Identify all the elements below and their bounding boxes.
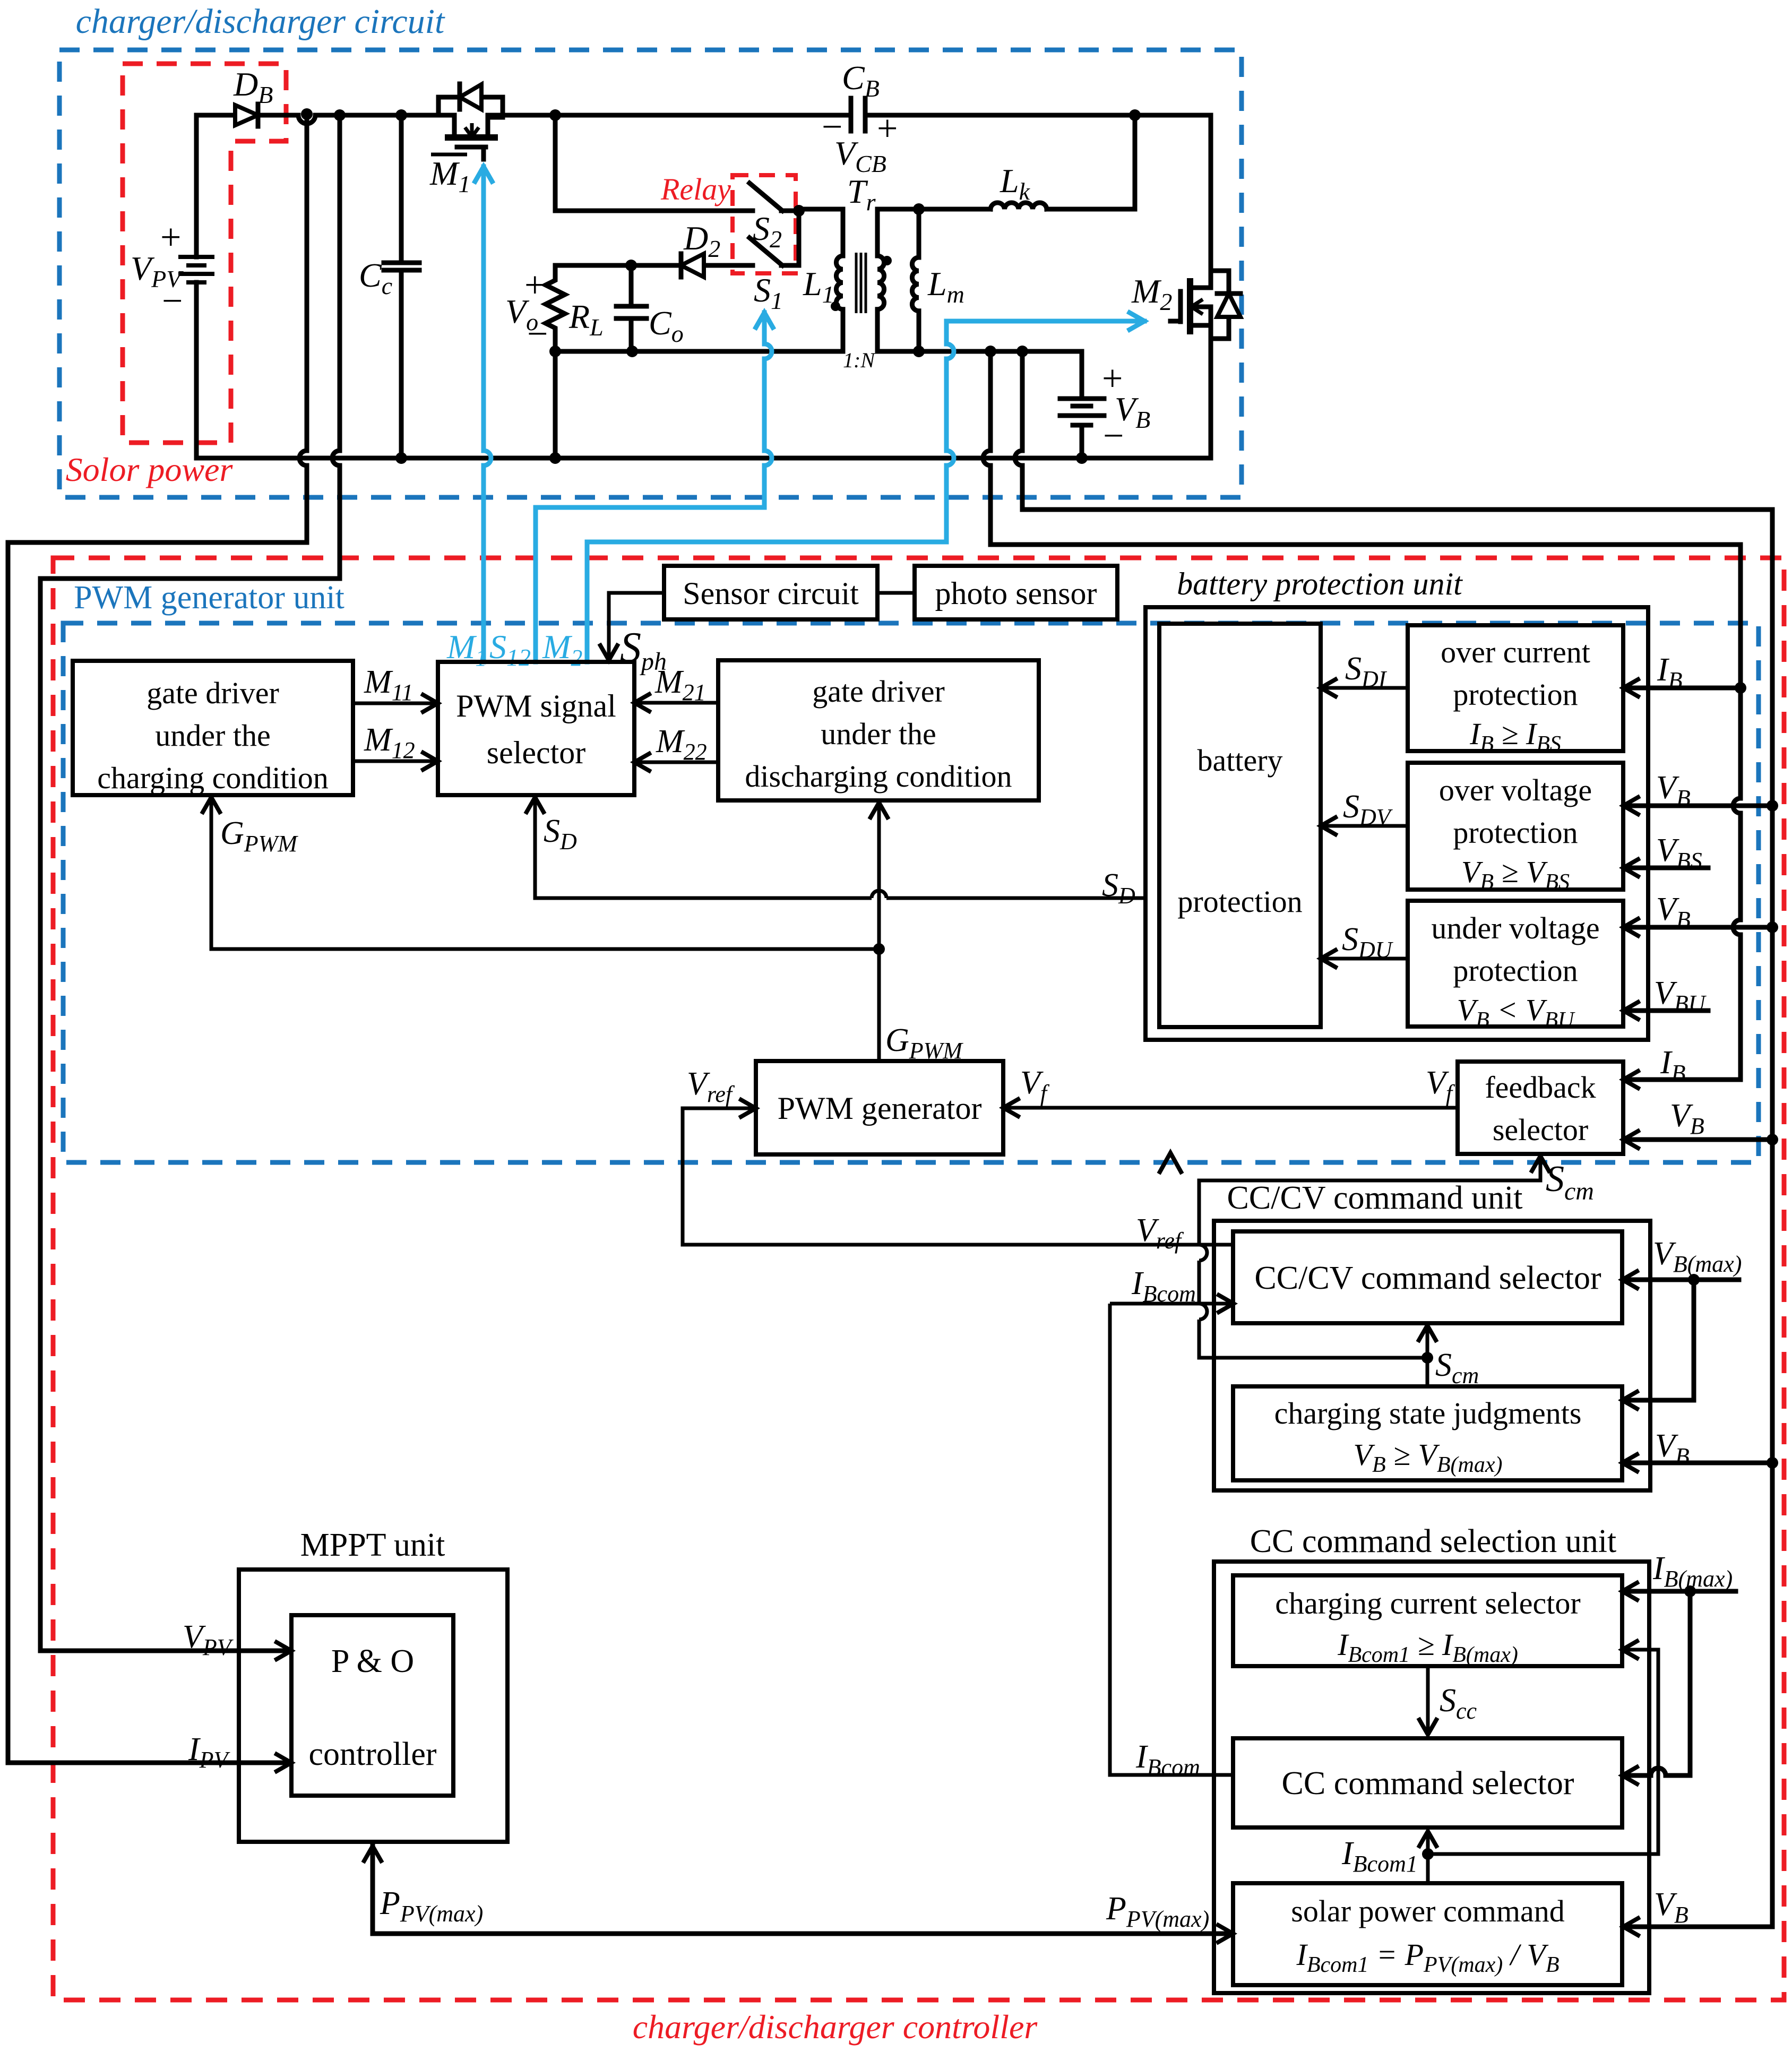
box: solar power command: [1233, 1883, 1622, 1985]
svg-text:CC/CV command selector: CC/CV command selector: [1254, 1260, 1601, 1296]
box: CC/CV command unit outer: [1214, 1221, 1650, 1490]
svg-text:gate driver: gate driver: [812, 674, 945, 709]
box: charging state judgments: [1233, 1386, 1622, 1480]
node rail/C_c: [395, 109, 407, 121]
dashed box: Relay: [733, 175, 796, 273]
arrow I_B into feedback selector: [1623, 1071, 1638, 1088]
wire M2 source to rail: [1209, 307, 1213, 458]
arrow V_ref into PWM generator: [741, 1100, 756, 1117]
switch S2 blade: [749, 183, 782, 211]
box: over voltage protection: [1408, 763, 1623, 890]
arrow V_Bmax into charging state judgments: [1622, 1392, 1637, 1409]
arrow S_cm into feedback selector: [1532, 1156, 1549, 1171]
node rail/battery minus: [1076, 452, 1088, 464]
svg-text:under the: under the: [155, 718, 270, 753]
wire S2 left: [555, 209, 753, 213]
wire secondary bottom: [919, 349, 1082, 354]
svg-text:over current: over current: [1441, 635, 1590, 669]
svg-text:selector: selector: [1493, 1113, 1588, 1147]
box: gate driver under the charging condition: [73, 661, 353, 795]
node output bottom/R_L: [549, 346, 561, 357]
wire V_B branch to over voltage: [1626, 804, 1772, 808]
svg-text:solar power command: solar power command: [1291, 1894, 1564, 1928]
arrow I_Bmax into charging current selector: [1622, 1583, 1637, 1600]
box: under voltage protection: [1408, 901, 1623, 1027]
svg-text:charger/discharger circuit: charger/discharger circuit: [76, 2, 445, 41]
arrow I_PV into P&O: [277, 1754, 291, 1771]
wire S2/S1 right contacts: [781, 211, 799, 265]
box: gate driver under the discharging condition: [718, 660, 1039, 800]
cyan gate wire S12: [536, 313, 772, 662]
wire sensor link: [877, 591, 915, 595]
wire rail branch down to S2: [553, 115, 558, 211]
battery V_PV: [178, 257, 214, 282]
arrow V_Bmax into CC/CV command selector: [1622, 1271, 1637, 1288]
box: CC command selection unit outer: [1214, 1562, 1649, 1993]
wire D2 to C_o node: [631, 263, 681, 268]
dashed box: charger/discharger circuit: [59, 50, 1242, 497]
inductor L_k: [990, 203, 1047, 209]
svg-text:feedback: feedback: [1485, 1070, 1596, 1105]
svg-text:−: −: [162, 281, 183, 322]
capacitor C_o: [616, 306, 647, 318]
svg-text:P & O: P & O: [331, 1643, 414, 1679]
wire S1 left (from D2): [704, 263, 753, 268]
wire top rail to M1: [315, 113, 453, 118]
wire V_B sense lower segment to solar power command: [1626, 1463, 1772, 1927]
wire V_ref: [683, 1108, 1234, 1245]
dashed box: PWM generator unit: [63, 623, 1759, 1162]
transformer secondary: [875, 209, 880, 256]
wire V_B sense (from battery node to right side): [1015, 351, 1772, 1463]
node S_cm: [1421, 1352, 1433, 1364]
inductor L_m: [917, 209, 921, 257]
arrow P_PVmax into MPPT unit: [364, 1846, 381, 1861]
node I_B/over current: [1735, 682, 1746, 694]
wire V_B branch to under voltage: [1626, 925, 1772, 930]
MOSFET M2: [1170, 291, 1181, 322]
M1 body diode: [438, 84, 503, 117]
box: over current protection: [1408, 625, 1623, 751]
node V_B/feedback: [1767, 1134, 1778, 1145]
svg-text:PWM generator unit: PWM generator unit: [74, 580, 344, 616]
svg-text:−: −: [527, 314, 548, 355]
svg-text:charger/discharger controller: charger/discharger controller: [633, 2008, 1038, 2046]
box: charging current selector: [1233, 1575, 1622, 1666]
node V_B/over voltage: [1767, 800, 1778, 812]
svg-text:selector: selector: [487, 735, 586, 770]
svg-text:CC command selection unit: CC command selection unit: [1250, 1523, 1617, 1559]
box: PWM generator: [756, 1061, 1003, 1154]
node V_B/under voltage: [1767, 921, 1778, 933]
svg-text:under voltage: under voltage: [1431, 911, 1599, 945]
svg-text:charging condition: charging condition: [97, 761, 328, 795]
cyan gate wire M1: [484, 167, 491, 662]
wire I_Bcom: [1110, 1304, 1234, 1775]
switch S1 blade: [749, 238, 782, 265]
arrow I_Bmax into CC command selector: [1622, 1767, 1637, 1784]
box: photo sensor: [915, 566, 1117, 619]
svg-text:photo sensor: photo sensor: [935, 576, 1097, 611]
transformer Tr primary L1: [799, 209, 843, 256]
wire bottom rail: [197, 456, 1211, 461]
svg-text:MPPT unit: MPPT unit: [300, 1527, 445, 1563]
capacitor C_c: [384, 263, 419, 270]
wire I_PV sense (left outer): [8, 116, 307, 1763]
node rail/output return: [549, 452, 561, 464]
wire top rail to M2 drain: [865, 115, 1211, 288]
svg-text:battery: battery: [1197, 743, 1282, 778]
arrow V_B into charging state judgments: [1622, 1454, 1637, 1471]
MOSFET M1: [454, 115, 488, 137]
dashed box: charger/discharger controller: [53, 558, 1784, 2000]
diode D_B: [235, 105, 258, 125]
wire M11: [353, 702, 438, 705]
svg-text:protection: protection: [1177, 884, 1302, 919]
svg-text:protection: protection: [1453, 677, 1578, 712]
svg-text:CC/CV command unit: CC/CV command unit: [1227, 1180, 1523, 1216]
box: feedback selector: [1458, 1062, 1623, 1154]
arrow V_f into PWM generator: [1003, 1099, 1018, 1116]
wire M22: [634, 761, 718, 764]
arrow V_B into feedback selector: [1623, 1131, 1638, 1148]
wire secondary top: [877, 207, 990, 212]
wire I_B sense: [983, 351, 1741, 1080]
svg-text:Sensor circuit: Sensor circuit: [683, 576, 859, 611]
box: P & O controller: [291, 1615, 453, 1796]
node rail/I_PV sense: [334, 109, 346, 121]
svg-text:under the: under the: [821, 717, 936, 751]
M2 body diode: [1211, 271, 1240, 339]
wire top rail right of M1: [488, 113, 851, 118]
hop on rail at V_PV sense: [298, 115, 315, 124]
wire V_PV sense (left inner): [40, 115, 340, 1651]
node secondary bottom/V_B sense: [1016, 346, 1028, 357]
wire V_PV bottom lead: [194, 282, 199, 458]
svg-text:battery protection unit: battery protection unit: [1177, 566, 1463, 601]
cyan gate wire M2: [587, 321, 1144, 662]
wire M12: [353, 760, 438, 763]
wire V_f: [1003, 1106, 1458, 1110]
box: battery protection inner: [1159, 624, 1321, 1027]
box: CC command selector: [1233, 1738, 1622, 1827]
node rail/L_k: [1129, 109, 1141, 121]
box: Sensor circuit: [664, 566, 877, 619]
wire S_ph: [609, 593, 664, 658]
arrow G_PWM into charging gate driver: [203, 797, 220, 812]
transformer core: [856, 253, 866, 313]
svg-text:controller: controller: [308, 1736, 436, 1772]
arrow I_Bcom1 into charging current selector: [1622, 1641, 1637, 1658]
dashed box: Solor power: [123, 64, 286, 443]
label M1 (with overline): [431, 153, 467, 157]
arrow P_PVmax into solar power command: [1218, 1925, 1233, 1942]
wire M21: [634, 701, 718, 705]
svg-text:over voltage: over voltage: [1439, 773, 1592, 807]
wire V_BU stub: [1626, 1008, 1708, 1013]
node I_Bmax: [1684, 1585, 1696, 1597]
node rail/V_PV sense: [301, 108, 313, 120]
wire S_DI: [1321, 686, 1408, 690]
node D2/C_o: [625, 260, 637, 271]
svg-text:PWM signal: PWM signal: [456, 688, 616, 723]
wire S_cm net: [1199, 1156, 1540, 1386]
arrow G_PWM into discharging gate driver: [871, 803, 888, 817]
node output bottom/C_o: [626, 346, 638, 357]
svg-text:charging current selector: charging current selector: [1275, 1586, 1580, 1620]
arrow V_B into solar power command: [1623, 1918, 1638, 1935]
wire output return to rail: [553, 351, 558, 458]
node I_Bcom1: [1422, 1848, 1434, 1860]
arrow I_Bcom into CC/CV command selector: [1219, 1295, 1234, 1312]
wire V_B(max): [1625, 1280, 1739, 1400]
wire S_DU: [1321, 957, 1408, 961]
wire V_PV top lead: [196, 115, 235, 257]
svg-text:protection: protection: [1453, 953, 1578, 988]
diode D2: [681, 254, 704, 277]
arrow S_cm into CC/CV command selector: [1419, 1325, 1436, 1340]
svg-text:1:N: 1:N: [843, 348, 876, 372]
wire output bottom: [555, 349, 843, 354]
wire I_Bcom1 net: [1428, 1650, 1658, 1883]
arrow I_Bcom1 into CC command selector: [1419, 1831, 1436, 1846]
node V_B/judgments: [1767, 1457, 1778, 1469]
wire V_BS stub: [1626, 866, 1708, 870]
wire S_DV: [1321, 824, 1408, 828]
polarity dot secondary: [882, 256, 892, 265]
node V_Bmax: [1688, 1274, 1700, 1286]
node rail/C_c bottom: [395, 452, 407, 464]
wire top rail left: [260, 113, 298, 118]
arrow V_PV into P&O: [277, 1642, 291, 1659]
svg-text:PWM generator: PWM generator: [778, 1091, 982, 1126]
battery V_B: [1060, 399, 1104, 425]
node secondary bottom/L_m: [913, 346, 925, 357]
svg-text:+: +: [160, 217, 181, 258]
arrow S_ph down into selector: [600, 645, 617, 660]
arrow S_D into PWM signal selector: [527, 797, 544, 812]
svg-text:protection: protection: [1453, 815, 1578, 850]
svg-text:gate driver: gate driver: [147, 676, 279, 710]
node rail/S2 branch: [549, 109, 561, 121]
svg-text:Relay: Relay: [660, 172, 731, 206]
wire R_L top: [555, 263, 631, 268]
wire S_D: [535, 797, 1145, 898]
caret mark on PWM unit border: [1160, 1153, 1181, 1172]
svg-text:−: −: [1103, 416, 1124, 456]
box: CC/CV command selector: [1233, 1231, 1622, 1323]
node G_PWM: [873, 943, 885, 955]
svg-text:charging state judgments: charging state judgments: [1274, 1396, 1582, 1430]
capacitor C_B: [851, 98, 865, 131]
svg-text:CC command selector: CC command selector: [1282, 1765, 1574, 1801]
svg-text:discharging condition: discharging condition: [745, 759, 1012, 794]
node secondary bottom/I_B sense: [985, 346, 996, 357]
polarity dot primary: [831, 301, 840, 311]
node S2-S1/primary: [793, 205, 805, 217]
wire I_B(max): [1625, 1591, 1736, 1775]
wire G_PWM net: [211, 797, 879, 1061]
box: PWM signal selector: [438, 662, 634, 795]
wire I_B input branch: [1626, 686, 1741, 691]
wire V_B branch to charging state judgments: [1625, 1461, 1772, 1465]
resistor R_L: [546, 265, 565, 351]
node secondary top/L_m: [913, 203, 925, 215]
wire S_cc: [1426, 1666, 1430, 1735]
svg-text:+: +: [524, 265, 545, 306]
box: battery protection unit outer: [1145, 607, 1648, 1040]
wire V_B branch to feedback selector: [1626, 1137, 1772, 1142]
box: MPPT unit outer: [239, 1570, 507, 1842]
wire P_PV(max): [373, 1846, 1230, 1934]
